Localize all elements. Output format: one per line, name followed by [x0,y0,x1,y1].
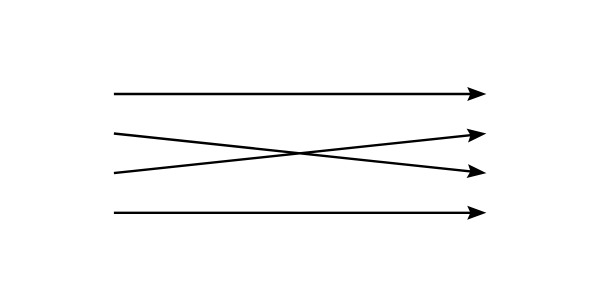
wire [114,212,473,214]
wire [114,134,473,172]
arrow 2 (descending crossing ray) [114,134,487,181]
wire [114,135,473,173]
arrow 4 (bottom horizontal ray) [114,206,487,220]
wire [114,93,473,95]
arrow 3 (ascending crossing ray) [114,127,487,174]
arrow 1 (top horizontal ray) [114,87,487,101]
